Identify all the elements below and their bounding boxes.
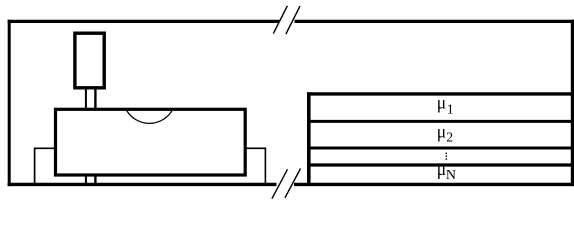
svg-text:μ: μ <box>437 122 446 142</box>
break mark slash 2 bottom border <box>285 169 301 198</box>
break mark slash 1 top border <box>273 6 287 34</box>
layer boundary mu1/mu2 <box>309 120 572 123</box>
left mounting bracket <box>35 148 56 184</box>
right mounting bracket <box>245 148 265 184</box>
concave dimple arc on probe top <box>127 111 172 124</box>
layer boundary dots/muN <box>309 163 572 166</box>
svg-text:1: 1 <box>447 103 454 118</box>
outer shield top border left segment <box>8 20 280 23</box>
probe body big box <box>56 109 246 175</box>
outer shield bottom border left segment <box>8 183 277 186</box>
layered medium left edge <box>307 92 311 186</box>
label mu_2 <box>437 122 453 145</box>
coil/transducer small rectangle <box>75 33 104 88</box>
layered medium top edge <box>307 92 572 95</box>
svg-text:μ: μ <box>437 159 446 179</box>
outer shield bottom border right segment <box>294 183 574 186</box>
label mu_1 <box>437 93 454 118</box>
outer shield top border right segment <box>295 20 574 23</box>
svg-text:N: N <box>446 168 456 183</box>
stem lower left wire <box>85 175 87 185</box>
vertical ellipsis dots <box>446 153 448 160</box>
break mark slash 2 top border <box>286 6 300 34</box>
stem upper right wire <box>94 88 96 110</box>
svg-text:μ: μ <box>437 93 446 113</box>
outer shield right border <box>571 20 574 186</box>
layer boundary mu2/dots <box>309 147 572 150</box>
break mark slash 1 bottom border <box>272 169 288 198</box>
stem upper left wire <box>85 88 87 110</box>
outer shield left border <box>8 20 11 186</box>
label mu_N <box>437 159 456 183</box>
stem lower right wire <box>94 175 96 185</box>
svg-text:2: 2 <box>446 130 453 145</box>
